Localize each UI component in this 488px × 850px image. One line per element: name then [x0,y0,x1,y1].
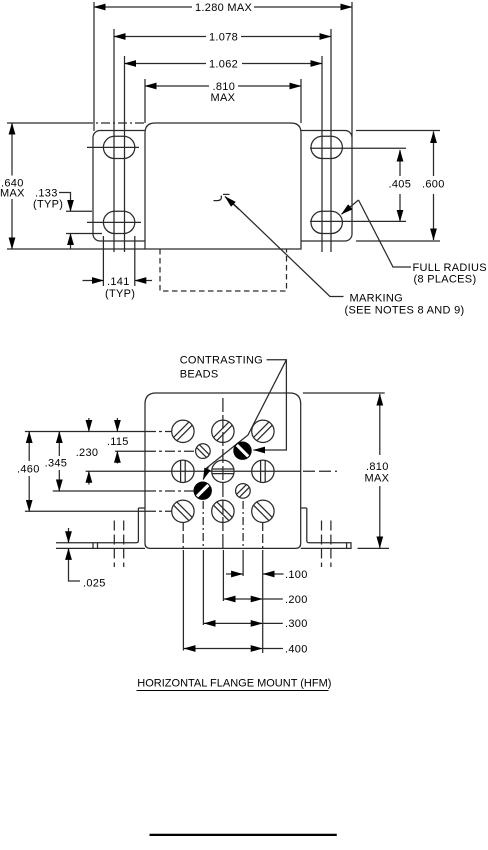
pin small lower [233,481,254,502]
pin row3 left [167,495,199,527]
.025 arrow upper (down) [68,528,70,543]
contrasting bead upper [233,442,251,460]
svg-text:.100: .100 [285,569,308,581]
right flange hole centerlines (dashed) [321,521,323,568]
pin row1 middle [207,415,239,447]
.025 extension lines [56,542,93,544]
.133 lower arrow (up) [70,234,72,249]
.810 MAX extension top [303,392,385,394]
dimension line 1.280 MAX [94,6,192,8]
pin row1 left [167,415,199,447]
MARKING leader [229,200,344,297]
.230 arrow lower (up onto row2) [88,471,90,484]
.025 arrow lower (up) + leader to text [68,548,70,561]
.600 extension bottom (flange bottom) [356,240,440,242]
svg-text:1.078: 1.078 [209,31,238,43]
dimension line 1.062 [125,63,207,65]
svg-text:MAX: MAX [211,92,236,104]
extension line .640 top [7,122,84,124]
mounting hole upper-right (obround) [311,136,342,158]
svg-text:1.062: 1.062 [209,58,238,70]
pin small upper [193,441,214,462]
.810 MAX dimension line lower (down arrow) [379,486,381,548]
.133 extension bottom (hole bottom) [66,233,102,235]
.115 arrow lower (up onto bead row) [116,451,118,463]
extension line .640 bottom / body bottom extension [7,248,145,250]
footer rule [150,834,337,836]
.133 upper arrow (down) [70,200,72,211]
svg-text:.115: .115 [107,436,129,448]
column centerlines below pins (dash) [182,522,184,548]
relay base square outline [145,393,301,548]
hole centerline horizontal upper-right (also .405 extension) [310,147,406,149]
extension/centerline 1.062 left [124,56,126,252]
svg-text:(TYP): (TYP) [33,199,63,211]
svg-text:.600: .600 [422,179,445,191]
title underline [137,690,329,692]
right flange foot end tick [346,543,348,549]
svg-text:CONTRASTING: CONTRASTING [180,355,263,367]
extension line 1.280 right [351,2,353,137]
header projection (dashed rectangle below body) [160,249,287,291]
svg-text:.810: .810 [366,461,389,473]
pin row3 middle [207,495,239,527]
left flange foot end tick [97,543,99,549]
.115 arrow upper (down onto row1) [116,418,118,432]
svg-text:.133: .133 [35,187,58,199]
pin row2 left [172,460,194,482]
.400 dimension line [184,648,222,650]
bead row 2 centerline / .345 extension [53,490,146,492]
svg-text:MARKING: MARKING [350,292,403,304]
.405 dimension line lower segment with down arrow [399,194,401,221]
.141 arrow right (pointing left) [135,280,152,282]
center vertical centerline [222,398,224,548]
hole centerline horizontal lower-left [87,221,141,223]
mounting hole upper-left (obround) [103,136,134,158]
extension/centerline 1.062 right [321,56,323,252]
svg-text:BEADS: BEADS [180,369,219,381]
.141 extension left (hole left edge) [102,236,104,286]
svg-text:.230: .230 [76,447,99,459]
right flange riser (outer) and foot [301,508,351,548]
pin row1 right [247,415,279,447]
svg-text:.460: .460 [17,464,40,476]
.600 extension top (flange top) [356,130,440,132]
left flange riser top cap [138,507,144,509]
svg-text:MAX: MAX [0,187,25,199]
svg-text:(TYP): (TYP) [105,288,135,300]
mounting hole lower-right (obround) [311,211,342,233]
contrasting bead lower [194,482,212,500]
center horizontal centerline [86,470,301,472]
dimension line .810 MAX [145,85,209,87]
svg-text:.141: .141 [107,276,130,288]
marking squiggle [214,196,222,201]
svg-text:FULL RADIUS: FULL RADIUS [413,262,487,274]
FULL RADIUS leader [359,200,412,267]
.200 dimension line [224,598,242,600]
.100 dimension arrows (outside, pointing in) [226,573,243,575]
.300 dimension line [204,622,232,624]
hole centerline horizontal lower-right (also .405 extension) [310,220,406,222]
centerline body top to flange (dash-dot) [84,122,145,124]
left flange hole centerlines (dashed) [113,521,115,568]
.230 arrow upper (down onto row1) [88,418,90,432]
.810 MAX dimension line upper (up arrow) [379,394,381,455]
extension line 1.280 left [93,2,95,131]
flange plate outline [93,131,352,242]
.133 leader from text [59,193,71,201]
svg-text:1.280 MAX: 1.280 MAX [195,2,252,14]
.141 extension right (hole right edge) [134,236,136,286]
bottom column extension lines [182,550,184,651]
svg-text:.345: .345 [45,458,68,470]
svg-text:.405: .405 [389,179,412,191]
left flange riser (outer) and foot [93,508,145,548]
.133 extension top (hole top) [66,210,92,212]
extension/centerline 1.078 left [113,29,115,252]
svg-text:.300: .300 [285,618,308,630]
svg-text:MAX: MAX [365,472,390,484]
extension/centerline 1.078 right [330,29,332,252]
extension line .810 left [144,79,146,123]
.600 dimension line upper segment with up arrow [433,132,435,177]
row 1 centerline / extension (.115 .230 .345 .460 top) [25,431,146,433]
svg-text:HORIZONTAL FLANGE MOUNT (HFM): HORIZONTAL FLANGE MOUNT (HFM) [137,677,331,689]
.141 arrow left (pointing right) [83,280,104,282]
svg-text:.200: .200 [285,594,308,606]
.405 dimension line upper segment with up arrow [399,150,401,176]
dimension line .640 MAX (vertical) [11,123,13,176]
.600 dimension line lower segment with down arrow [433,194,435,240]
.345 dimension line (vertical, arrows out) [58,432,60,446]
extension line .810 right [300,79,302,123]
.810 MAX extension bottom [358,547,390,549]
right flange riser top cap [301,507,307,509]
svg-text:(SEE NOTES 8 AND 9): (SEE NOTES 8 AND 9) [345,304,465,316]
pin row2 middle [212,460,234,482]
pin row3 right [247,495,279,527]
bead row 1 centerline / .115 extension [115,450,146,452]
hole centerline horizontal upper-left [87,146,139,148]
CONTRASTING BEADS leader [258,360,286,450]
mounting hole lower-left (obround) [103,211,134,233]
svg-text:(8 PLACES): (8 PLACES) [414,274,477,286]
pin row2 right [252,460,274,482]
svg-text:.025: .025 [83,577,106,589]
.460 dimension line (vertical, arrows out) [28,432,30,448]
body cover (white fill hides flange behind) [145,123,301,249]
svg-text:.400: .400 [285,644,308,656]
dimension line 1.078 [114,36,206,38]
row 3 centerline / .460 extension [25,510,146,512]
